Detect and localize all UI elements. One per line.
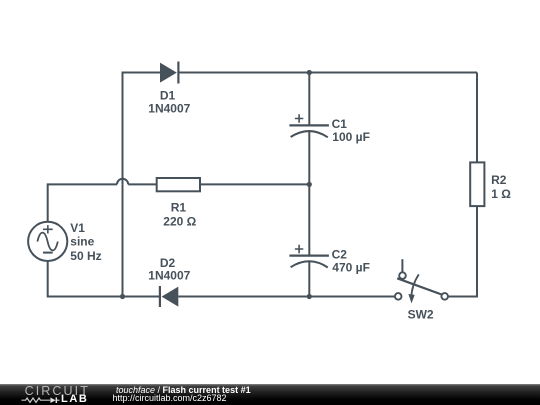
logo zigzag and diode	[20, 396, 62, 405]
node junction top	[307, 70, 312, 75]
wire hop to R1	[128, 183, 157, 185]
hop over vertical wire	[117, 179, 128, 185]
wire left vertical below hop	[122, 184, 124, 296]
svg-text:SW2: SW2	[408, 308, 434, 322]
svg-text:470 µF: 470 µF	[332, 261, 370, 275]
resistor R2	[470, 162, 484, 206]
diode D2	[160, 286, 178, 307]
svg-text:C2: C2	[332, 247, 348, 261]
wire C1 branch upper	[308, 73, 310, 126]
capacitor C2	[289, 245, 329, 268]
svg-text:R2: R2	[491, 173, 507, 187]
switch SW2	[395, 259, 448, 303]
logo LAB	[61, 395, 88, 403]
svg-text:1 Ω: 1 Ω	[491, 187, 511, 201]
wire right rail to R2	[476, 73, 478, 163]
footer url line	[113, 394, 227, 404]
wire D2 to SW2	[178, 296, 395, 298]
voltage source V1	[28, 222, 67, 261]
capacitor C1	[289, 114, 329, 137]
wire top from D1-left corner to D1	[123, 73, 161, 185]
node junction left bottom	[120, 294, 125, 299]
footer bar	[0, 384, 540, 405]
svg-text:1N4007: 1N4007	[148, 269, 190, 283]
footer title line	[116, 386, 251, 396]
wire R1 to C node	[200, 183, 309, 185]
node junction middle	[307, 182, 312, 187]
diode D1	[160, 62, 178, 84]
svg-text:1N4007: 1N4007	[148, 101, 190, 115]
wire V1 bottom to D2	[48, 261, 159, 297]
svg-text:100 µF: 100 µF	[332, 130, 370, 144]
CircuitLab logo	[25, 386, 90, 396]
wire V1 top to R1 with hop	[48, 184, 117, 221]
node junction bottom	[307, 294, 312, 299]
resistor R1	[157, 178, 200, 191]
svg-text:D1: D1	[160, 88, 176, 102]
wire C1 branch lower	[308, 131, 310, 184]
svg-text:V1: V1	[70, 221, 85, 235]
wire C2 branch lower	[308, 262, 310, 297]
wire R2 to SW2 right	[448, 206, 477, 296]
wire C2 branch upper	[308, 184, 310, 255]
svg-text:220 Ω: 220 Ω	[163, 215, 196, 229]
svg-text:50 Hz: 50 Hz	[70, 249, 101, 263]
svg-text:sine: sine	[70, 235, 94, 249]
wire top from D1 to right corner	[178, 72, 477, 74]
svg-text:R1: R1	[171, 200, 187, 214]
svg-text:C1: C1	[332, 117, 348, 131]
